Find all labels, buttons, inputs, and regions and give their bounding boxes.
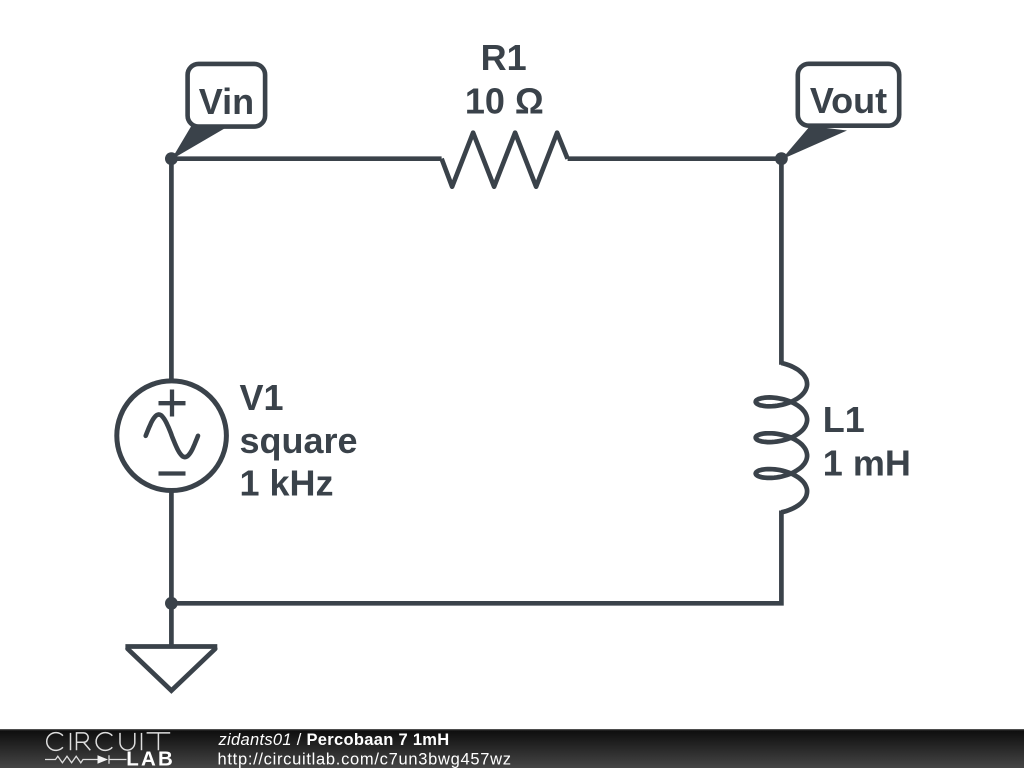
svg-text:square: square xyxy=(240,420,358,461)
svg-text:1 kHz: 1 kHz xyxy=(240,462,334,503)
svg-text:R1: R1 xyxy=(481,37,527,78)
svg-text:Vin: Vin xyxy=(199,81,254,122)
svg-text:Vout: Vout xyxy=(810,80,887,121)
svg-text:V1: V1 xyxy=(240,377,284,418)
svg-text:LAB: LAB xyxy=(126,747,175,768)
svg-text:1 mH: 1 mH xyxy=(823,443,911,484)
svg-text:10 Ω: 10 Ω xyxy=(465,80,544,121)
svg-text:L1: L1 xyxy=(823,399,865,440)
svg-text:zidants01 / Percobaan 7 1mH: zidants01 / Percobaan 7 1mH xyxy=(218,731,450,749)
svg-text:http://circuitlab.com/c7un3bwg: http://circuitlab.com/c7un3bwg457wz xyxy=(218,750,512,768)
